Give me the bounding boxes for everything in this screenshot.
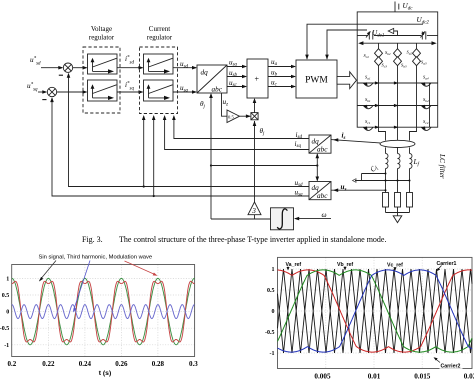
svg-text:Udc2: Udc2	[417, 16, 430, 25]
wire integrator output to theta trunk	[211, 218, 271, 220]
svg-text:i*sd: i*sd	[125, 55, 134, 66]
svg-text:Sc4: Sc4	[423, 119, 429, 125]
wire junction2 to voltage PI q	[57, 90, 88, 94]
wire u_sb to sum box	[227, 69, 247, 79]
svg-text:Voltage: Voltage	[91, 25, 112, 33]
wire u_a to PWM	[268, 58, 296, 68]
svg-text:regulator: regulator	[89, 34, 115, 42]
svg-text:is: is	[342, 132, 346, 142]
svg-text:ω: ω	[322, 211, 327, 219]
svg-text:us: us	[341, 183, 347, 193]
left chart modulation wave (red)	[12, 281, 195, 342]
wire DC feedback upper into PWM	[305, 24, 425, 59]
svg-text:0.22: 0.22	[42, 360, 55, 368]
wire u_z from dq/abc down to gain	[222, 93, 228, 116]
wire theta_j vertical trunk into dq/abc	[209, 93, 213, 219]
node i*_sq label	[125, 81, 134, 92]
Vb_ref modulation (green)	[278, 270, 473, 352]
svg-text:0.2: 0.2	[8, 360, 17, 368]
minus sign at summing junction 2	[42, 99, 46, 101]
multiplier	[251, 113, 258, 120]
svg-text:usq: usq	[295, 188, 304, 197]
wire voltage PI q to current PI q	[117, 90, 144, 94]
right chart gridlines	[278, 257, 473, 368]
neutral point tap arrow	[388, 28, 397, 35]
node theta_j label at dq/abc	[200, 100, 206, 110]
wire u_sd branch into current regulator	[142, 115, 146, 187]
filter inductor phase b	[398, 147, 401, 192]
pointer to sine signal	[39, 261, 56, 282]
svg-text:Cf: Cf	[369, 163, 380, 174]
svg-text:ua: ua	[271, 58, 278, 67]
phase c output jog	[410, 127, 417, 140]
svg-text:abc: abc	[212, 86, 223, 94]
svg-text:Carrier2: Carrier2	[441, 364, 461, 370]
dq/abc transform U1	[197, 65, 227, 94]
label Carrier1	[436, 259, 459, 272]
svg-text:-1: -1	[4, 343, 9, 349]
svg-text:θj: θj	[200, 100, 206, 110]
svg-text:isq: isq	[295, 140, 302, 149]
svg-text:0.26: 0.26	[115, 360, 128, 368]
right chart x tick labels	[314, 373, 474, 381]
load resistor phase c	[407, 193, 413, 213]
svg-text:0.01: 0.01	[368, 373, 381, 381]
wire omega into integrator	[294, 211, 331, 220]
wire u_sq branch into current regulator	[152, 115, 156, 196]
svg-text:Udc1: Udc1	[372, 29, 384, 38]
svg-text:Sb4: Sb4	[423, 97, 429, 103]
load resistor phase a	[383, 193, 389, 213]
load resistor phase b	[395, 193, 401, 213]
svg-text:-0.5: -0.5	[0, 326, 9, 332]
svg-text:Sin signal, Third harmonic, Mo: Sin signal, Third harmonic, Modulation w…	[39, 255, 153, 261]
PI block current q	[144, 80, 174, 101]
wire u_sc to sum box	[227, 79, 247, 88]
Current regulator title	[147, 25, 173, 42]
left chart axes box	[12, 265, 195, 357]
figure caption	[82, 235, 386, 244]
svg-text:3: 3	[251, 207, 256, 215]
svg-text:Sa1: Sa1	[365, 75, 371, 81]
svg-text:abc: abc	[317, 192, 328, 200]
summing junction 1	[63, 63, 72, 72]
phase column wires	[379, 66, 430, 128]
Va_ref modulation (red)	[278, 270, 473, 352]
svg-text:-0.5: -0.5	[265, 330, 275, 336]
svg-text:usb: usb	[229, 69, 238, 78]
gain 0.5 triangle	[227, 110, 240, 123]
right chart axes box	[278, 257, 473, 368]
filter capacitor bank C_f	[353, 163, 411, 182]
node u_z label	[223, 98, 229, 108]
wire u_s measurement to dq/abc	[331, 183, 387, 193]
wire u*_sq to summing junction 2	[38, 90, 47, 94]
label Carrier2	[434, 357, 463, 369]
Voltage regulator title	[89, 25, 115, 42]
svg-text:t (s): t (s)	[99, 370, 111, 377]
svg-text:Lf: Lf	[413, 158, 420, 167]
svg-text:Fig. 3.: Fig. 3.	[82, 235, 103, 244]
clamp switch pair phase a	[407, 43, 427, 65]
svg-text:0.28: 0.28	[152, 360, 165, 368]
svg-text:uz: uz	[223, 98, 229, 108]
svg-text:0: 0	[6, 310, 9, 316]
wire gain to multiplier	[240, 114, 251, 118]
svg-text:u*sd: u*sd	[30, 56, 41, 67]
left chart x axis title	[99, 370, 111, 377]
svg-text:Sa4: Sa4	[423, 75, 429, 81]
svg-text:0.02: 0.02	[464, 373, 474, 381]
svg-text:Udc: Udc	[403, 2, 414, 11]
clamp switch pair phase c	[364, 43, 388, 68]
pointer to third harmonic	[73, 261, 90, 313]
wire i_sd feedback	[172, 115, 309, 140]
svg-text:dq: dq	[312, 184, 320, 192]
svg-text:usc: usc	[229, 79, 238, 88]
wire i_sq feedback	[163, 115, 309, 150]
svg-text:dq: dq	[201, 69, 209, 77]
wire i_s measurement to dq/abc	[331, 132, 380, 143]
Vc_ref modulation (blue)	[278, 270, 473, 352]
voltage regulator dashed box	[83, 47, 120, 113]
svg-text:PWM: PWM	[305, 76, 328, 86]
minus sign at summing junction 1	[59, 74, 63, 76]
node u*_sq input label	[27, 82, 38, 93]
right chart y tick labels	[265, 267, 275, 357]
phase a output jog	[379, 127, 386, 140]
sum box (+)	[247, 59, 268, 98]
wire current PI d to dq/abc	[173, 66, 197, 70]
PWM block	[296, 60, 337, 98]
DC-link rail with split capacitors	[357, 32, 438, 40]
svg-text:Sc3: Sc3	[382, 63, 388, 69]
LC filter label	[438, 153, 446, 179]
svg-text:dq: dq	[312, 138, 320, 146]
left chart sine signal (green)	[12, 278, 195, 344]
node u_sq label	[180, 84, 189, 94]
node u_sd label	[180, 60, 189, 70]
wire u_b to PWM	[268, 68, 296, 78]
wire multiplier output up to sum box	[253, 98, 257, 113]
pointer to modulation wave	[125, 261, 158, 276]
svg-text:regulator: regulator	[147, 34, 173, 42]
svg-text:usd: usd	[295, 179, 304, 188]
node U_dc1 label	[372, 29, 384, 38]
svg-text:ub: ub	[271, 68, 278, 77]
summing junction 2	[47, 87, 56, 96]
svg-text:0.015: 0.015	[414, 373, 431, 381]
dq/abc voltage transform	[309, 182, 331, 201]
node U_dc2 label	[417, 16, 430, 25]
wire voltage PI d to current PI d	[117, 66, 144, 70]
svg-text:+: +	[255, 75, 260, 84]
svg-text:0.5: 0.5	[228, 114, 234, 119]
node i*_sd label	[125, 55, 134, 66]
current regulator dashed box	[140, 47, 178, 114]
wire DC feedback lower into PWM	[325, 30, 371, 60]
double arrow between transforms	[316, 153, 320, 181]
DC source U_dc	[395, 2, 413, 12]
clamp switch pair phase b	[385, 43, 407, 68]
svg-text:i*sq: i*sq	[125, 81, 134, 92]
svg-text:0.5: 0.5	[267, 288, 275, 294]
svg-text:0.5: 0.5	[2, 293, 10, 299]
svg-text:1: 1	[6, 276, 9, 282]
svg-text:LC filter: LC filter	[438, 153, 446, 179]
carrier 1 (upper triangle wave)	[278, 269, 473, 311]
left chart gridlines	[12, 265, 195, 357]
svg-text:0.24: 0.24	[79, 360, 92, 368]
svg-text:Sa3: Sa3	[421, 60, 427, 66]
svg-text:uc: uc	[271, 79, 278, 88]
wire u_c to PWM	[268, 79, 296, 89]
svg-text:0.3: 0.3	[189, 360, 198, 368]
svg-text:-1: -1	[270, 351, 275, 357]
wire u_sd feedback	[67, 73, 309, 188]
svg-text:θj: θj	[260, 127, 266, 137]
wire junction1 to voltage PI d	[73, 66, 88, 70]
wire theta_j into multiplier from below	[253, 121, 257, 202]
left chart x tick labels	[8, 360, 199, 368]
wire u*_sd to summing junction	[41, 66, 63, 70]
PI block voltage q	[88, 80, 118, 101]
filter inductor phase a	[386, 147, 389, 192]
neutral bus double arrow	[358, 41, 437, 45]
label Vb_ref	[336, 260, 356, 271]
svg-text:Sb1: Sb1	[365, 97, 371, 103]
svg-text:1: 1	[272, 267, 275, 273]
inverter bridge outline	[357, 12, 438, 127]
filter inductor phase c with L_f label	[410, 147, 420, 192]
left chart y tick labels	[0, 276, 9, 348]
phase c row with switches S_c1 S_c4	[363, 119, 431, 130]
left chart title	[39, 255, 153, 261]
svg-text:Sc2: Sc2	[364, 53, 370, 59]
dq/abc current transform	[309, 135, 331, 154]
wire u_sa to sum box	[227, 59, 247, 69]
label Va_ref	[285, 260, 305, 271]
svg-text:abc: abc	[317, 146, 328, 154]
gain 3 triangle	[248, 202, 261, 219]
PI block voltage d	[88, 54, 118, 74]
carrier 2 (lower triangle wave)	[278, 311, 473, 353]
left chart third harmonic (blue)	[12, 305, 195, 319]
svg-text:u*sq: u*sq	[27, 82, 38, 93]
svg-text:The control structure of the t: The control structure of the three-phase…	[119, 235, 386, 244]
svg-text:Sc1: Sc1	[365, 119, 371, 125]
svg-text:Sb2: Sb2	[385, 50, 391, 56]
phase b output	[397, 127, 399, 140]
wire theta_j to transforms	[211, 164, 318, 166]
svg-text:Sb3: Sb3	[401, 63, 407, 69]
PWM to inverter block arrow	[337, 72, 357, 89]
svg-text:usa: usa	[229, 59, 238, 68]
integrator block	[271, 208, 294, 230]
svg-text:Sa2: Sa2	[407, 50, 413, 56]
PI block current d	[144, 54, 174, 74]
label Vc_ref	[386, 260, 406, 271]
current sensor ellipse	[380, 140, 415, 147]
wire u_sq feedback	[50, 97, 309, 197]
svg-text:isd: isd	[296, 131, 303, 140]
wire current PI q to dq/abc	[173, 90, 197, 94]
node theta_j label at multiplier	[260, 127, 266, 137]
phase a row with switches S_a1 S_a4	[357, 75, 438, 87]
svg-text:Current: Current	[149, 25, 170, 33]
svg-text:0.005: 0.005	[314, 373, 331, 381]
phase b row with switches S_b1 S_b4	[357, 97, 438, 109]
svg-text:0: 0	[272, 309, 275, 315]
node u*_sd input label	[30, 56, 41, 67]
svg-text:Carrier1: Carrier1	[437, 261, 457, 267]
load star point and ground	[386, 213, 410, 223]
